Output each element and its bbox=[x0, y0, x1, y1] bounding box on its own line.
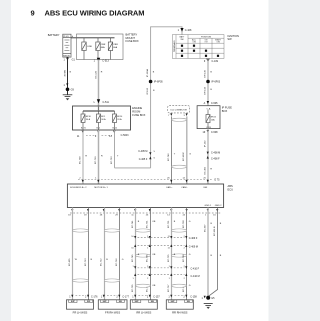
svg-text:IP-106: IP-106 bbox=[147, 87, 149, 94]
svg-text:CAN +: CAN + bbox=[166, 186, 173, 189]
svg-text:C-157: C-157 bbox=[153, 296, 160, 299]
svg-text:EC-712: EC-712 bbox=[101, 258, 103, 266]
svg-text:9: 9 bbox=[31, 9, 35, 18]
RR LH WSS box bbox=[130, 300, 157, 309]
svg-text:30 A: 30 A bbox=[86, 118, 91, 121]
wire CAN L bbox=[186, 116, 188, 184]
wire EC-703 (ignition sw feed) bbox=[114, 130, 116, 168]
fuse EF1 30A bbox=[97, 111, 101, 130]
wire: battery plus bus to fuse box bbox=[71, 37, 115, 39]
svg-text:ABS ECU WIRING DIAGRAM: ABS ECU WIRING DIAGRAM bbox=[45, 9, 145, 18]
svg-text:G: G bbox=[122, 259, 124, 261]
svg-text:EC-736: EC-736 bbox=[183, 254, 185, 262]
svg-text:20 A: 20 A bbox=[117, 118, 122, 121]
wire: horizontal link at y=167.9 bbox=[115, 167, 151, 169]
svg-text:SIG: SIG bbox=[151, 301, 155, 303]
battery minus pin G1 bbox=[66, 58, 69, 61]
connector C-511 bbox=[97, 99, 100, 103]
svg-text:SW: SW bbox=[180, 39, 183, 41]
twisted pair lens (DLC) bbox=[172, 118, 187, 121]
fuse CBR output pin C-513 bbox=[97, 58, 100, 62]
splice dot G9 bbox=[66, 88, 70, 92]
wire EC-719 (motor feed) bbox=[98, 130, 100, 184]
svg-text:FUSE BOX: FUSE BOX bbox=[126, 39, 139, 43]
svg-text:SOLENOID B+ 2: SOLENOID B+ 2 bbox=[70, 187, 87, 189]
svg-text:MINUS: MINUS bbox=[63, 55, 70, 57]
battery ground pin bbox=[66, 83, 68, 86]
fuse EF10 30A bbox=[81, 111, 85, 130]
svg-text:BATTERY: BATTERY bbox=[48, 33, 60, 37]
svg-text:OB: OB bbox=[152, 254, 156, 256]
wire EC-120 to engine room fuse box bbox=[98, 60, 100, 107]
svg-text:IP-100A: IP-100A bbox=[146, 69, 149, 77]
svg-text:C-177: C-177 bbox=[122, 296, 129, 299]
rear wire mid labels bbox=[132, 254, 222, 262]
svg-text:G: G bbox=[189, 254, 191, 256]
table contact dots bbox=[181, 45, 219, 57]
svg-text:C-408 M: C-408 M bbox=[211, 151, 220, 154]
svg-text:EP-136: EP-136 bbox=[205, 69, 207, 77]
connector row C-409 F bbox=[138, 237, 185, 239]
svg-text:EP-134: EP-134 bbox=[205, 86, 207, 94]
connector C-108 bbox=[180, 28, 183, 32]
connector row C-410 M bbox=[138, 274, 185, 276]
svg-text:SIG: SIG bbox=[119, 301, 123, 303]
svg-text:BATT: BATT bbox=[180, 35, 186, 38]
svg-text:C-511: C-511 bbox=[103, 101, 110, 104]
svg-text:30 A: 30 A bbox=[101, 118, 106, 121]
svg-text:GND 2: GND 2 bbox=[215, 205, 222, 207]
connector C-405 M / C-405 F bbox=[149, 152, 151, 155]
svg-text:EC-9002: EC-9002 bbox=[183, 152, 185, 161]
connector C-508 bbox=[207, 130, 210, 133]
ground splice dot bbox=[206, 296, 210, 300]
engine room fuse box bbox=[73, 106, 131, 130]
svg-text:C-410 F: C-410 F bbox=[191, 268, 200, 271]
svg-text:C-508: C-508 bbox=[211, 131, 218, 134]
twisted pair lens bbox=[172, 229, 187, 232]
svg-text:FR LH WSS: FR LH WSS bbox=[73, 311, 88, 315]
svg-text:EC-746: EC-746 bbox=[168, 153, 170, 161]
svg-text:C-408 F: C-408 F bbox=[211, 158, 220, 161]
svg-text:C-176: C-176 bbox=[91, 296, 98, 299]
battery mount fuse box (dashed) bbox=[77, 34, 124, 60]
svg-text:EC-731: EC-731 bbox=[147, 220, 149, 228]
ECU bottom pins bbox=[71, 209, 218, 212]
svg-text:IP-102: IP-102 bbox=[205, 140, 207, 147]
battery B1 bbox=[63, 34, 71, 57]
svg-text:IGN: IGN bbox=[203, 187, 207, 189]
svg-text:EC-721: EC-721 bbox=[168, 220, 170, 228]
wire: battery to ground bbox=[67, 57, 69, 95]
svg-text:EF24: EF24 bbox=[211, 117, 217, 119]
wire: ignition output EP-136 bbox=[207, 58, 209, 105]
ground (right) bbox=[204, 304, 213, 306]
svg-text:EF10: EF10 bbox=[86, 116, 92, 118]
connector C-505 bbox=[207, 101, 210, 104]
sensor connector row C-176 bbox=[71, 295, 73, 298]
twisted pair lens bbox=[73, 229, 89, 232]
svg-text:MOTOR B+ 1: MOTOR B+ 1 bbox=[94, 187, 108, 189]
wire pair FR RH WSS bbox=[104, 208, 106, 300]
svg-text:RR RH WSS: RR RH WSS bbox=[172, 311, 188, 315]
svg-text:C-513: C-513 bbox=[102, 60, 109, 63]
twisted pair lens bbox=[104, 229, 120, 232]
twisted pair lens (RR RH lower) bbox=[172, 284, 187, 287]
svg-text:EC-738: EC-738 bbox=[183, 220, 185, 228]
svg-text:LINK: LINK bbox=[87, 46, 92, 48]
twisted pair lens bbox=[136, 254, 151, 257]
RR RH WSS box bbox=[166, 300, 193, 309]
wire pair FR LH WSS bbox=[72, 208, 74, 300]
svg-text:C-405 F: C-405 F bbox=[139, 158, 148, 161]
svg-text:EC-402: EC-402 bbox=[205, 166, 207, 174]
svg-text:C-5003: C-5003 bbox=[121, 134, 130, 137]
svg-text:FR RH WSS: FR RH WSS bbox=[105, 311, 120, 315]
svg-text:EC-717: EC-717 bbox=[168, 284, 170, 292]
fuse EF24 10A (IP) bbox=[206, 110, 210, 129]
svg-text:OB: OB bbox=[152, 221, 156, 223]
svg-text:RR LH WSS: RR LH WSS bbox=[136, 311, 151, 315]
IP fuse box bbox=[197, 106, 220, 129]
connector row C-5003 bbox=[82, 131, 116, 134]
svg-text:TERMINALS: TERMINALS bbox=[173, 40, 176, 52]
svg-text:EC-716: EC-716 bbox=[116, 258, 118, 266]
sensor connector row C-157 bbox=[134, 295, 136, 298]
sensor connector row C-177 bbox=[103, 295, 105, 298]
svg-text:EC-705: EC-705 bbox=[132, 284, 134, 292]
svg-text:E 75: E 75 bbox=[215, 178, 221, 181]
svg-text:SIG: SIG bbox=[187, 301, 191, 303]
connector row E-75 (ECU top) bbox=[78, 178, 213, 180]
svg-text:IP-6P05: IP-6P05 bbox=[154, 81, 163, 84]
connector C-109 bbox=[206, 59, 209, 63]
wire pair RR LH WSS bbox=[135, 208, 137, 300]
splice IP-6P03 (ignition) bbox=[206, 80, 210, 84]
svg-text:CBR: CBR bbox=[101, 44, 106, 46]
svg-text:10A: 10A bbox=[211, 118, 215, 121]
fuse CBR 60A (2) bbox=[108, 38, 112, 60]
svg-text:EC-907: EC-907 bbox=[204, 224, 206, 232]
ignition switch table bbox=[172, 35, 224, 59]
svg-text:EC-703: EC-703 bbox=[111, 156, 113, 164]
twisted pair lens bbox=[104, 279, 120, 282]
svg-text:PLUS: PLUS bbox=[63, 36, 69, 38]
sensor connector row C-158 bbox=[170, 295, 172, 298]
wire: IP feed branch (vertical x=150.6) bbox=[150, 82, 152, 168]
svg-text:GND 1: GND 1 bbox=[205, 205, 212, 207]
svg-text:EC-455: EC-455 bbox=[69, 258, 71, 266]
wire GND 1 bbox=[207, 208, 209, 297]
fuse EF14 20A bbox=[113, 111, 117, 130]
internal bus bbox=[83, 110, 115, 112]
twisted pair lens bbox=[73, 279, 89, 282]
svg-text:C-405 M: C-405 M bbox=[138, 150, 147, 153]
twisted pair lens bbox=[172, 254, 187, 257]
FR RH WSS box bbox=[98, 300, 127, 309]
twisted pair lens (above ECU) bbox=[172, 165, 187, 168]
E-75 pins bbox=[82, 180, 209, 183]
svg-text:EF14: EF14 bbox=[117, 116, 123, 118]
svg-text:DLC CONNECTOR: DLC CONNECTOR bbox=[170, 109, 187, 111]
svg-text:G: G bbox=[189, 153, 191, 155]
svg-text:POSITION: POSITION bbox=[201, 36, 211, 38]
svg-text:ECU: ECU bbox=[228, 188, 234, 192]
twisted pair lens bbox=[136, 229, 151, 232]
svg-text:EC-719: EC-719 bbox=[95, 156, 97, 164]
svg-text:G: G bbox=[189, 285, 191, 287]
DLC pins bbox=[170, 113, 172, 116]
connector row C-410 F bbox=[138, 267, 185, 269]
ECU bottom connector row bbox=[70, 212, 221, 214]
svg-text:EC-901 B: EC-901 B bbox=[214, 226, 216, 236]
svg-text:C-158: C-158 bbox=[190, 296, 197, 299]
svg-text:EC-120: EC-120 bbox=[96, 70, 98, 78]
svg-text:OB: OB bbox=[152, 285, 156, 287]
svg-text:C-409 M: C-409 M bbox=[189, 245, 198, 248]
fuse CBR 60A (1) bbox=[96, 38, 100, 60]
battery plates bbox=[64, 40, 69, 50]
svg-text:60A: 60A bbox=[113, 46, 117, 49]
ground (battery) bbox=[63, 95, 73, 97]
svg-text:EC-725: EC-725 bbox=[168, 254, 170, 262]
svg-text:C-410 M: C-410 M bbox=[191, 275, 200, 278]
svg-text:30 WB: 30 WB bbox=[64, 69, 66, 76]
svg-text:EC-735: EC-735 bbox=[147, 254, 149, 262]
connector C-408 M / C-408 F bbox=[207, 152, 209, 155]
svg-text:CBR: CBR bbox=[113, 44, 118, 46]
svg-text:EC-709: EC-709 bbox=[79, 156, 81, 164]
svg-text:C-409 F: C-409 F bbox=[189, 237, 198, 240]
svg-text:SIG: SIG bbox=[87, 301, 91, 303]
wire GND 2 bbox=[208, 208, 217, 297]
wire CAN H bbox=[171, 116, 173, 184]
wire pair RR RH WSS bbox=[171, 208, 173, 300]
svg-text:C-505: C-505 bbox=[211, 102, 218, 105]
svg-text:CAN L: CAN L bbox=[181, 186, 188, 189]
svg-text:60A: 60A bbox=[101, 46, 105, 49]
svg-text:IP-6P03: IP-6P03 bbox=[211, 81, 220, 84]
twisted pair lens (RR LH lower) bbox=[136, 284, 151, 287]
svg-text:BOX: BOX bbox=[222, 109, 228, 113]
wire: feed to ignition switch (top run) bbox=[151, 27, 182, 82]
svg-text:C-19: C-19 bbox=[206, 127, 212, 129]
svg-text:SW: SW bbox=[227, 37, 232, 41]
ABS ECU box U1 bbox=[67, 184, 223, 208]
splice IP-6P03 (branch) bbox=[149, 80, 153, 84]
svg-text:EC-745: EC-745 bbox=[132, 254, 134, 262]
svg-text:G: G bbox=[189, 221, 191, 223]
data link connector (dashed) bbox=[168, 106, 190, 113]
fusible link F1 bbox=[82, 38, 86, 60]
svg-text:EC-713: EC-713 bbox=[85, 258, 87, 266]
svg-text:C-108: C-108 bbox=[185, 29, 192, 32]
FR LH WSS box bbox=[67, 300, 94, 309]
wire: IGN feed to ECU bbox=[207, 129, 209, 184]
connector row C-409 M bbox=[138, 245, 185, 247]
svg-text:FUSE BOX: FUSE BOX bbox=[132, 113, 145, 117]
svg-text:C-A: C-A bbox=[207, 107, 211, 110]
wire EC-709 (solenoid feed) bbox=[82, 130, 84, 184]
svg-text:EC-741: EC-741 bbox=[132, 220, 134, 228]
svg-text:C-109: C-109 bbox=[212, 60, 219, 63]
